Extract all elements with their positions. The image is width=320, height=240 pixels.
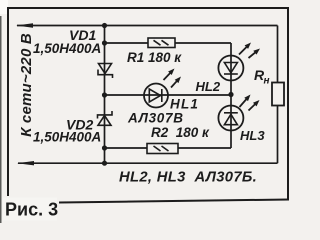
svg-text:R2 180 к: R2 180 к: [151, 125, 210, 140]
svg-text:Рис. 3: Рис. 3: [5, 200, 58, 220]
svg-text:HL3: HL3: [240, 128, 265, 143]
svg-text:АЛ307В: АЛ307В: [127, 111, 184, 126]
svg-text:HL2, HL3 АЛ307Б.: HL2, HL3 АЛ307Б.: [119, 170, 257, 186]
svg-text:1,50Н400А: 1,50Н400А: [33, 41, 101, 56]
svg-text:HL1: HL1: [170, 97, 199, 112]
svg-text:HL2: HL2: [196, 79, 221, 94]
svg-text:К сети~220 В: К сети~220 В: [18, 33, 35, 137]
svg-text:1,50Н400А: 1,50Н400А: [33, 130, 101, 145]
svg-text:н: н: [264, 76, 270, 87]
svg-text:R1 180 к: R1 180 к: [127, 50, 182, 65]
